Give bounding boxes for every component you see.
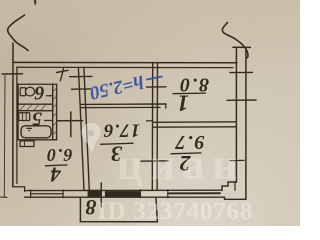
blue note h=2.50: [87, 71, 145, 104]
bathroom block right wall inner: [52, 84, 54, 140]
svg-text:4: 4: [50, 163, 62, 187]
toilet tank room 6: [20, 88, 25, 96]
window room4: middle line: [31, 193, 63, 195]
svg-text:8: 8: [86, 195, 97, 220]
balcony door jamb line: [100, 183, 102, 207]
wall C tick upper: [70, 75, 93, 77]
watermark pin logo: [81, 123, 100, 154]
wall A right line: [156, 63, 158, 191]
toilet bowl room 6: [25, 87, 34, 96]
bottom-right inner step: [222, 182, 236, 191]
left inner wall: [16, 67, 18, 183]
svg-text:6.0: 6.0: [46, 145, 73, 165]
window room3: left jamb: [139, 190, 141, 198]
wall A room3|rooms1-2 divider left line: [151, 63, 153, 191]
bottom-right step extra line: [234, 182, 236, 190]
wall-break squiggle top-right: [222, 23, 248, 58]
left outer wall: [12, 43, 14, 187]
wall C tick lower: [72, 88, 91, 90]
cross mark vertical: [70, 112, 72, 137]
wall C hall|room3 left line: [78, 68, 84, 191]
room 6 label: [35, 82, 45, 104]
svg-text:17.6: 17.6: [103, 120, 140, 141]
wall B bottom line: [153, 126, 237, 128]
bathroom block right wall outer: [56, 84, 58, 140]
paper blemish top edge: [34, 0, 36, 6]
wall D second line: [81, 106, 160, 108]
wall D east jamb tick: [165, 104, 167, 108]
window room4: left jamb: [30, 190, 32, 198]
top outer wall: [13, 61, 237, 63]
room 1 label: [173, 74, 210, 116]
right wall tick middle: [227, 99, 256, 101]
left wall section tick: [2, 73, 23, 75]
symbol t near top wall: [57, 69, 69, 81]
svg-text:6: 6: [35, 82, 45, 104]
hatch between rooms 6 and 5: [20, 105, 46, 111]
svg-text:1: 1: [177, 91, 189, 116]
right outer wall: [245, 48, 247, 199]
wall B rooms1|2 divider top line: [153, 121, 237, 124]
room 2 label: [171, 131, 205, 176]
leader dash room 5: [45, 120, 54, 122]
window room3: right jamb: [167, 190, 169, 198]
bathroom block left edge: [17, 84, 19, 140]
window room4: right jamb: [62, 190, 64, 198]
wall A tick upper: [147, 86, 167, 88]
wall C right line: [84, 68, 89, 191]
bottom-right outer step: [225, 197, 246, 199]
wall between rooms 6 and 5 top line: [18, 103, 53, 105]
bathroom block bottom edge: [18, 139, 57, 141]
svg-text:циан: циан: [117, 140, 245, 189]
sink room 5: [19, 113, 30, 121]
cross mark horizontal: [57, 120, 83, 122]
wall D room3 top line: [81, 103, 166, 105]
balcony wall thick bar left part: [88, 190, 102, 197]
step box under bathroom: [20, 141, 34, 147]
wall A tick lower: [141, 160, 168, 162]
paper edge thin line left: [3, 76, 6, 197]
bottom wall top line: [25, 189, 222, 191]
svg-text:ID 323740768: ID 323740768: [97, 198, 253, 225]
balcony outline: [80, 197, 157, 221]
bottom wall glazing line right: [169, 192, 220, 194]
bathtub room 5: [21, 126, 51, 138]
svg-text:5: 5: [32, 108, 42, 130]
room 8 label: [86, 195, 97, 220]
room 3 label: [100, 120, 140, 167]
bathroom block top edge: [17, 83, 56, 85]
blue dash: [147, 77, 162, 80]
bathtub nub: [27, 128, 32, 130]
right wall tick upper: [230, 71, 253, 73]
wall between rooms 6 and 5 bottom line: [18, 110, 53, 112]
leader dash room 6: [47, 95, 54, 97]
room 5 label: [32, 108, 42, 130]
right wall tick lower: [230, 159, 244, 161]
step box inner line: [24, 141, 26, 147]
wall A nub at wall B joint: [147, 120, 153, 122]
balcony wall thick bar right part: [105, 191, 140, 197]
top inner wall: [17, 66, 233, 68]
bottom-left step: [13, 187, 25, 192]
right wall cap: [233, 46, 251, 48]
small tick bottom-left edge: [1, 196, 8, 198]
wall-break squiggle top-left: [8, 15, 28, 51]
sink inner line: [21, 113, 23, 121]
hatch right wall: [53, 88, 57, 135]
room 4 label: [45, 145, 73, 186]
bottom wall bottom line: [25, 196, 225, 198]
right inner wall: [235, 47, 237, 182]
